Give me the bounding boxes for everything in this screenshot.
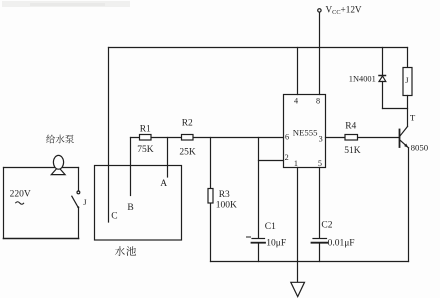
svg-text:8: 8 (316, 97, 320, 106)
wire: top Vcc bus (109, 47, 408, 49)
wire: electrode B (130, 138, 132, 196)
svg-text:R3: R3 (219, 190, 230, 200)
svg-text:10μF: 10μF (266, 238, 286, 248)
resistor R4 (345, 135, 358, 141)
resistor R3 (vertical) with wire to ground bus (210, 138, 212, 262)
wire: Vcc terminal down to pin 8 (319, 12, 321, 94)
wire: pin 1 down to ground bus (297, 168, 299, 262)
resistor R1 (140, 135, 152, 141)
svg-text:T: T (410, 113, 416, 123)
svg-text:R1: R1 (140, 124, 151, 134)
svg-text:25K: 25K (179, 147, 196, 157)
wire: electrode A (167, 138, 169, 178)
svg-text:1: 1 (294, 159, 298, 168)
svg-text:2: 2 (285, 153, 289, 162)
svg-text:C1: C1 (265, 222, 276, 232)
svg-text:B: B (127, 203, 133, 213)
wire: emitter down to ground bus (408, 148, 410, 262)
pump symbol (给水泵) (51, 155, 65, 174)
svg-text:C: C (111, 212, 117, 222)
label 水池 (115, 246, 136, 256)
label 给水泵 (46, 135, 74, 144)
svg-text:0.01μF: 0.01μF (328, 239, 355, 249)
faint scan smudge (decorative, from source scan) (2, 1, 130, 7)
svg-text:NE555: NE555 (293, 127, 318, 137)
diode 1N4001 (379, 48, 386, 109)
svg-text:4: 4 (294, 97, 298, 106)
resistor R2 (182, 135, 194, 141)
wire: diode bottom to relay branch (383, 108, 408, 110)
wire: main sense wire to pin 6 (131, 137, 284, 139)
IC U1 NE555 (284, 95, 326, 168)
svg-text:51K: 51K (344, 146, 361, 156)
svg-text:100K: 100K (216, 201, 237, 211)
wire: 220V loop left (3, 168, 5, 239)
svg-text:6: 6 (285, 133, 289, 142)
svg-text:3: 3 (319, 134, 323, 143)
svg-text:75K: 75K (137, 145, 154, 155)
svg-text:1N4001: 1N4001 (349, 75, 376, 84)
transistor T 8050 (400, 127, 409, 148)
svg-text:220V: 220V (10, 190, 31, 200)
svg-text:R4: R4 (345, 121, 356, 131)
svg-text:5: 5 (318, 159, 322, 168)
switch J (relay contact) (72, 168, 80, 239)
wire: electrode C from top bus (108, 48, 110, 223)
wire: 220V loop top (4, 167, 79, 169)
relay coil J (403, 48, 412, 127)
water tank 水池 (95, 166, 182, 241)
node Vcc terminal (318, 9, 321, 12)
label ~ (15, 202, 24, 205)
wire: pin 2 (259, 160, 284, 162)
svg-text:VCC+12V: VCC+12V (326, 4, 362, 16)
ground (291, 262, 305, 297)
wire: pin 4 to top bus (297, 48, 299, 95)
wire: pin 5 down to C2 (319, 168, 321, 239)
svg-text:A: A (160, 179, 167, 189)
svg-text:R2: R2 (182, 119, 193, 129)
wire: pins 2/6 junction vertical (258, 138, 260, 239)
wire: 220V loop bottom (4, 238, 79, 240)
svg-text:C2: C2 (321, 220, 332, 230)
wire: pin 3 through R4 to transistor base (326, 137, 400, 139)
capacitor C1 (247, 237, 266, 262)
wire: bottom ground bus (211, 261, 409, 263)
capacitor C2 (312, 239, 328, 262)
svg-text:8050: 8050 (411, 143, 429, 153)
